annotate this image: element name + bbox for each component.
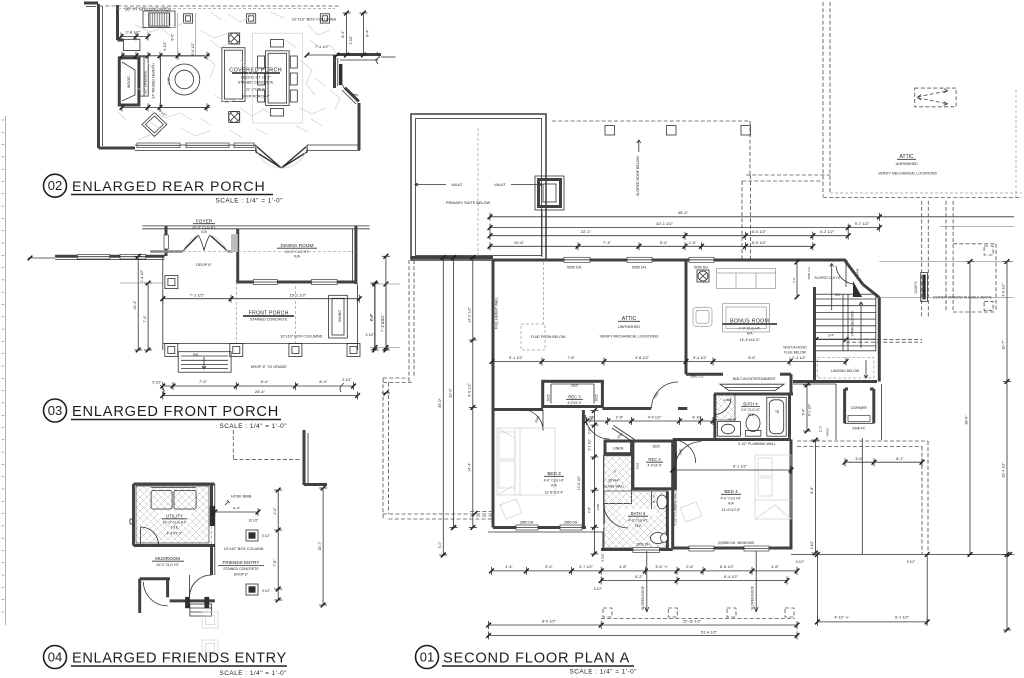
main: bottom dim row 3 bbox=[489, 624, 797, 626]
friends entry: dim horizontals bbox=[215, 511, 258, 513]
rear porch: chairs left bbox=[258, 56, 265, 68]
svg-text:5 1/2": 5 1/2" bbox=[594, 587, 602, 591]
svg-text:DN.: DN. bbox=[193, 353, 199, 357]
svg-text:5060 L.O.: 5060 L.O. bbox=[807, 266, 811, 279]
main: bonus chair bbox=[693, 307, 712, 326]
rear porch: box column top-right bbox=[320, 14, 329, 23]
svg-text:DN.: DN. bbox=[835, 293, 841, 297]
svg-text:TILE: TILE bbox=[747, 413, 754, 417]
svg-text:20'-4 1/2": 20'-4 1/2" bbox=[1002, 462, 1006, 478]
friends entry: utility left wall bbox=[132, 484, 135, 546]
svg-text:SCALE : 1/4" = 1'-0": SCALE : 1/4" = 1'-0" bbox=[220, 670, 287, 677]
rear porch: corner box column at wood storage bbox=[123, 39, 139, 50]
main: bed3 bed bbox=[497, 428, 555, 495]
main: small dim left of bay bbox=[796, 262, 798, 297]
main: bath4 fixtures bbox=[715, 394, 735, 420]
front porch: dashed roof overhang line bbox=[163, 250, 357, 252]
main: bottom right dim connectors bbox=[816, 555, 818, 622]
main: primary suite below rect bbox=[411, 114, 546, 260]
friends entry: dashed roof corner bbox=[232, 430, 234, 459]
front porch: dining bottom wall with windows bbox=[236, 281, 356, 284]
svg-text:K/A: K/A bbox=[728, 502, 734, 506]
main: attic bottom wall bbox=[493, 408, 543, 411]
svg-text:K/A: K/A bbox=[551, 484, 557, 488]
svg-text:4'-0" CLG HT.: 4'-0" CLG HT. bbox=[544, 479, 565, 483]
svg-text:ENLARGED FRONT PORCH: ENLARGED FRONT PORCH bbox=[72, 404, 279, 420]
svg-text:12'-8"x13'-4": 12'-8"x13'-4" bbox=[545, 491, 565, 495]
svg-text:8'-4": 8'-4" bbox=[366, 29, 370, 37]
rear porch: buffet bench bbox=[222, 48, 245, 102]
main: roof box columns bbox=[605, 126, 615, 136]
svg-text:DROP PORCH 4": DROP PORCH 4" bbox=[242, 95, 271, 99]
rear porch: top dashed interior line bbox=[118, 8, 335, 10]
svg-text:GLASS WALL: GLASS WALL bbox=[603, 485, 624, 489]
front porch: bottom columns bbox=[165, 344, 178, 357]
main: bath4 door bbox=[714, 398, 731, 415]
svg-text:10'-7": 10'-7" bbox=[1002, 340, 1006, 350]
main: hall left dim column bbox=[593, 411, 595, 555]
svg-text:5 1/2": 5 1/2" bbox=[349, 35, 353, 45]
friends entry: dim verticals bbox=[277, 490, 279, 600]
svg-text:4'-0": 4'-0" bbox=[273, 507, 277, 515]
svg-text:36" HT.: 36" HT. bbox=[728, 417, 737, 421]
rear porch: right wall lower bbox=[358, 103, 361, 150]
svg-text:8'-0 1/2": 8'-0 1/2" bbox=[752, 229, 767, 234]
title 03 circle bbox=[44, 399, 67, 422]
main: bed4 windows bbox=[689, 546, 714, 551]
svg-text:7'-8": 7'-8" bbox=[567, 356, 575, 360]
main: bottom dim row 1 bbox=[492, 570, 798, 572]
svg-text:4'-8 1/2": 4'-8 1/2" bbox=[635, 356, 650, 360]
main: skylight shaft bbox=[535, 176, 564, 210]
rear porch: grill cabinet surround bbox=[143, 11, 175, 28]
svg-text:5050 DH.: 5050 DH. bbox=[632, 266, 647, 270]
rear porch: top-left exterior wall stub bbox=[84, 2, 98, 5]
main: far-left small dims bbox=[374, 284, 376, 348]
friends entry: utility bottom wall bbox=[134, 544, 215, 547]
svg-text:4'-10" +/-: 4'-10" +/- bbox=[834, 616, 850, 620]
main: rec3 closet bbox=[543, 381, 603, 406]
front porch: mid dim line bbox=[163, 298, 359, 300]
rear porch: bottom window wall bbox=[135, 144, 256, 146]
front porch: house top wall bbox=[142, 225, 369, 227]
front porch: foyer left wall bbox=[165, 226, 168, 256]
svg-text:4'-0 1/2": 4'-0 1/2" bbox=[648, 416, 663, 420]
svg-text:8'-2": 8'-2" bbox=[635, 575, 643, 579]
rear porch: outer left wall bbox=[97, 4, 100, 148]
friends entry: closet door arc lower left bbox=[143, 582, 167, 606]
svg-text:SCALE : 1/4" = 1'-0": SCALE : 1/4" = 1'-0" bbox=[220, 423, 287, 430]
main: bonus door arc bbox=[652, 382, 679, 409]
svg-text:3'-5 1/2": 3'-5 1/2" bbox=[468, 382, 472, 397]
main: attic roof dashed outline top bbox=[552, 120, 750, 122]
svg-text:2625: 2625 bbox=[547, 394, 551, 401]
front porch: bottom dim row 2 bbox=[163, 395, 358, 397]
main: stair right outer wall bbox=[878, 298, 881, 382]
svg-text:CEILING HT. 10'-6": CEILING HT. 10'-6" bbox=[241, 76, 272, 80]
svg-text:1/2": 1/2" bbox=[588, 416, 594, 420]
main: bath3 toilet bbox=[651, 533, 666, 544]
svg-text:REC 3: REC 3 bbox=[568, 395, 581, 400]
rear porch: roof dashed line above grill bbox=[99, 5, 340, 7]
svg-text:5 1/2": 5 1/2" bbox=[366, 333, 376, 337]
main: bed3 room bbox=[582, 410, 585, 528]
main: top dim row 45-4 bbox=[490, 216, 1014, 218]
svg-text:B.: B. bbox=[653, 500, 656, 504]
svg-text:7'-1 1/2": 7'-1 1/2" bbox=[190, 293, 205, 298]
main: bonus left wall bbox=[685, 260, 688, 374]
main: dormer roof lines bbox=[835, 384, 837, 440]
main: rec4 closet bbox=[633, 441, 676, 489]
rear porch: flagstone pattern bbox=[135, 25, 170, 36]
main: bonus table bbox=[723, 304, 770, 332]
svg-text:9'-7 1/2": 9'-7 1/2" bbox=[855, 221, 870, 226]
svg-text:8'-0": 8'-0" bbox=[171, 33, 175, 41]
svg-text:10"x10" BOX COLUMNS: 10"x10" BOX COLUMNS bbox=[292, 17, 337, 22]
svg-text:LINEN: LINEN bbox=[613, 447, 624, 451]
svg-text:2080: 2080 bbox=[616, 432, 624, 440]
svg-text:2'-7": 2'-7" bbox=[819, 426, 823, 432]
svg-text:2850 DH.: 2850 DH. bbox=[636, 543, 650, 547]
main: bonus ceiling light bbox=[698, 271, 708, 281]
svg-text:7'-4": 7'-4" bbox=[143, 315, 147, 323]
front porch: foyer double doors bbox=[183, 235, 199, 251]
main: lower roof dashed and columns bbox=[601, 618, 795, 620]
svg-text:4'-8": 4'-8" bbox=[619, 565, 627, 569]
svg-text:9'-1 1/2": 9'-1 1/2" bbox=[808, 403, 812, 416]
rear porch: box column top-left bbox=[183, 14, 192, 23]
svg-text:4'-2 1/2": 4'-2 1/2" bbox=[820, 229, 835, 234]
svg-text:SCALE : 1/4" = 1'-0": SCALE : 1/4" = 1'-0" bbox=[216, 198, 283, 205]
svg-text:8'-4": 8'-4" bbox=[261, 379, 270, 384]
svg-text:9': 9' bbox=[614, 470, 617, 474]
svg-text:8'-0 1/2": 8'-0 1/2" bbox=[752, 240, 767, 245]
svg-text:3'-7 1/2": 3'-7 1/2" bbox=[579, 565, 594, 569]
svg-text:ROOF: ROOF bbox=[825, 428, 829, 437]
friends entry: porch column upper bbox=[246, 530, 258, 541]
svg-text:PRIMARY SUITE BELOW: PRIMARY SUITE BELOW bbox=[446, 201, 491, 205]
rear porch: right angled wall bbox=[345, 88, 359, 102]
svg-text:SLOPED ROOF BELOW: SLOPED ROOF BELOW bbox=[636, 155, 640, 196]
svg-text:3'-5" +/-: 3'-5" +/- bbox=[655, 565, 669, 569]
svg-text:UNFINISHED: UNFINISHED bbox=[896, 162, 918, 166]
main: roof valley line bbox=[861, 438, 863, 555]
front porch: left vertical dims bbox=[137, 256, 139, 350]
svg-text:8'-4": 8'-4" bbox=[341, 30, 345, 38]
friends entry: mudroom right wall bbox=[210, 546, 213, 576]
main: rec3 door arc bbox=[522, 410, 543, 431]
main: chimney flue dashed chase bbox=[741, 181, 743, 259]
svg-text:SECOND FLOOR PLAN A: SECOND FLOOR PLAN A bbox=[443, 651, 630, 667]
svg-text:K/A: K/A bbox=[294, 255, 300, 259]
svg-text:10'-0" CLG HT.: 10'-0" CLG HT. bbox=[163, 521, 187, 525]
svg-text:HOSE BIBB: HOSE BIBB bbox=[231, 495, 252, 499]
svg-text:3'-1 1/2": 3'-1 1/2" bbox=[588, 439, 592, 451]
svg-text:7'-1 1/2": 7'-1 1/2" bbox=[315, 45, 330, 49]
svg-text:2850 DH.: 2850 DH. bbox=[520, 521, 534, 525]
rear porch: dims right of porch bbox=[346, 13, 348, 55]
main: bath3 interior bbox=[603, 455, 605, 548]
main: angled door above linen bbox=[612, 428, 633, 442]
main: bed3 chair bbox=[500, 499, 522, 519]
svg-text:5050 DH.: 5050 DH. bbox=[694, 266, 709, 270]
svg-text:DROP 6": DROP 6" bbox=[234, 573, 249, 577]
svg-text:3'-4 1/2": 3'-4 1/2" bbox=[693, 356, 708, 360]
svg-text:2660 L.O.: 2660 L.O. bbox=[690, 375, 704, 379]
svg-text:51'-4 1/2": 51'-4 1/2" bbox=[701, 631, 718, 635]
svg-text:4'-4"x7'-0": 4'-4"x7'-0" bbox=[167, 532, 183, 536]
svg-text:5'-1 1/2": 5'-1 1/2" bbox=[509, 356, 524, 360]
svg-text:10"x10" BOX COLUMN: 10"x10" BOX COLUMN bbox=[224, 547, 264, 551]
svg-text:3'-0": 3'-0" bbox=[792, 277, 796, 283]
svg-text:2'-0": 2'-0" bbox=[689, 240, 698, 245]
svg-text:DROP 6": DROP 6" bbox=[196, 263, 212, 267]
svg-text:45'-4": 45'-4" bbox=[678, 210, 689, 215]
svg-text:2850 DH.: 2850 DH. bbox=[564, 521, 578, 525]
main: top wall with windows bbox=[493, 259, 846, 262]
svg-text:14'-4": 14'-4" bbox=[468, 462, 472, 472]
svg-text:4'-0"x3'-0": 4'-0"x3'-0" bbox=[567, 401, 581, 405]
rear porch: light fixture upper bbox=[229, 33, 240, 44]
svg-text:VAULT: VAULT bbox=[494, 183, 506, 187]
main: extension line right of bay corner bbox=[876, 297, 1014, 299]
main: dormer bbox=[843, 389, 846, 423]
main: linen closet bbox=[605, 441, 632, 454]
svg-text:9'-4": 9'-4" bbox=[802, 408, 806, 416]
svg-text:9'-6 1/2": 9'-6 1/2" bbox=[191, 42, 195, 56]
svg-text:2480: 2480 bbox=[596, 503, 600, 510]
front porch: dining left wall and pocket door bbox=[236, 229, 239, 283]
main: bath3 labels bbox=[620, 509, 656, 515]
rear porch: east opening walls bbox=[337, 53, 381, 56]
svg-text:13'-4"x12'-8": 13'-4"x12'-8" bbox=[722, 508, 742, 512]
svg-text:4'-10": 4'-10" bbox=[692, 416, 702, 420]
svg-text:03: 03 bbox=[48, 403, 62, 418]
front porch: right vertical dims bbox=[374, 283, 376, 350]
svg-text:UTILITY: UTILITY bbox=[166, 514, 183, 519]
svg-text:2448: 2448 bbox=[856, 268, 860, 275]
main: mid dim row bbox=[492, 361, 846, 363]
main: primary rect bottom wall to plan bbox=[411, 256, 493, 259]
rear porch: wood storage niche bbox=[119, 58, 139, 105]
rear porch: door leaf east bbox=[339, 64, 342, 85]
main: lower-left roof edge bbox=[488, 531, 603, 533]
friends entry: utility labels bbox=[158, 511, 191, 518]
rear porch: chair bottom bbox=[271, 109, 284, 117]
main: right margin extension lines bbox=[879, 261, 1014, 263]
svg-text:SLOPED ROOF: SLOPED ROOF bbox=[751, 586, 755, 610]
svg-text:3'-6": 3'-6" bbox=[855, 457, 863, 461]
svg-text:VERIFY MECHANICAL LOCATIONS: VERIFY MECHANICAL LOCATIONS bbox=[600, 335, 659, 339]
friends entry: steps below bbox=[190, 604, 212, 616]
svg-text:2880: 2880 bbox=[653, 391, 660, 399]
svg-text:21'-2"x25'-2": 21'-2"x25'-2" bbox=[246, 88, 266, 92]
main: bath3 door arc bbox=[604, 503, 629, 528]
rear porch: box column top-mid bbox=[247, 14, 256, 23]
svg-text:1'-4 1/2": 1'-4 1/2" bbox=[140, 269, 144, 282]
rear porch: diamond end table bbox=[142, 113, 167, 137]
svg-text:ENLARGED FRIENDS ENTRY: ENLARGED FRIENDS ENTRY bbox=[72, 651, 287, 667]
svg-text:01: 01 bbox=[420, 649, 434, 664]
svg-text:BATH 4: BATH 4 bbox=[743, 401, 758, 406]
svg-text:3'-4": 3'-4" bbox=[828, 334, 834, 338]
svg-text:4'-6": 4'-6" bbox=[771, 565, 779, 569]
front porch: porch right edge bbox=[357, 284, 359, 350]
rear porch: dim line below platform bbox=[122, 106, 210, 108]
rear porch: grill hatched bbox=[149, 13, 170, 26]
svg-text:BED 3: BED 3 bbox=[547, 471, 561, 476]
svg-text:14'-4"x14'-0": 14'-4"x14'-0" bbox=[740, 338, 761, 342]
svg-text:5 1/2": 5 1/2" bbox=[152, 381, 162, 385]
main: dormer roof symbol top-right bbox=[915, 88, 956, 107]
svg-text:2625: 2625 bbox=[635, 462, 639, 469]
svg-text:5 1/2": 5 1/2" bbox=[796, 560, 804, 564]
main: left vertical dims bbox=[442, 258, 444, 556]
svg-text:2625: 2625 bbox=[594, 394, 598, 401]
svg-text:4'-4": 4'-4" bbox=[233, 507, 241, 511]
svg-text:38'-0": 38'-0" bbox=[965, 415, 969, 425]
svg-text:BATH 3: BATH 3 bbox=[631, 511, 646, 516]
svg-text:15'-1 1/2": 15'-1 1/2" bbox=[289, 293, 306, 298]
title 04 circle bbox=[44, 646, 67, 669]
friends entry: porch column lower bbox=[246, 584, 258, 595]
main: left bottom vertical dim ticks bbox=[441, 553, 446, 558]
svg-text:5'-1 1/2": 5'-1 1/2" bbox=[895, 616, 910, 620]
svg-text:4'-4": 4'-4" bbox=[505, 565, 513, 569]
svg-text:42'-1 1/2": 42'-1 1/2" bbox=[656, 221, 673, 226]
front porch: porch left edge bbox=[162, 256, 164, 350]
svg-text:10'-6 1/2": 10'-6 1/2" bbox=[577, 475, 581, 490]
main: bed4 door arc bbox=[673, 440, 696, 463]
svg-text:32'-0": 32'-0" bbox=[448, 388, 452, 398]
main: bonus stair door arc bbox=[836, 266, 853, 284]
svg-text:SLOPED ROOF: SLOPED ROOF bbox=[641, 586, 645, 610]
svg-text:6'-8 1/2": 6'-8 1/2" bbox=[720, 565, 735, 569]
svg-text:5 1/2": 5 1/2" bbox=[907, 560, 915, 564]
front porch: column top-left bbox=[165, 276, 178, 289]
rear porch: double out-swing doors bbox=[256, 146, 281, 168]
main: bed3 windows bbox=[516, 525, 538, 530]
rear porch: hearth strip bbox=[140, 57, 148, 96]
rear porch: chair top bbox=[271, 40, 284, 48]
svg-text:2680: 2680 bbox=[679, 448, 683, 455]
rear porch: firepit platform bbox=[160, 56, 206, 108]
svg-text:VAULT: VAULT bbox=[451, 183, 463, 187]
svg-text:2'-4 1/2": 2'-4 1/2" bbox=[792, 356, 807, 360]
front porch: steps bbox=[178, 352, 231, 373]
friends entry: house corner wall bbox=[303, 430, 306, 485]
svg-text:5050 DH.: 5050 DH. bbox=[567, 266, 582, 270]
main: stair left wall bbox=[813, 287, 816, 382]
svg-text:02: 02 bbox=[48, 178, 62, 193]
rear porch: dining table bbox=[266, 51, 290, 106]
svg-text:10'-0" CLG HT.: 10'-0" CLG HT. bbox=[285, 250, 309, 254]
svg-text:5 1/2": 5 1/2" bbox=[342, 378, 352, 382]
main: top dim row 4 bbox=[490, 245, 813, 247]
svg-text:FULL HEIGHT WALL: FULL HEIGHT WALL bbox=[495, 297, 499, 329]
front porch: porch bottom edge line bbox=[163, 343, 358, 345]
main: bed4 chair bbox=[680, 502, 702, 522]
svg-text:5 1/2": 5 1/2" bbox=[262, 534, 270, 538]
friends entry: utility door bbox=[140, 527, 142, 546]
svg-text:2480: 2480 bbox=[674, 451, 678, 458]
rear porch: light fixture lower bbox=[229, 111, 240, 122]
svg-text:5 1/2": 5 1/2" bbox=[163, 41, 167, 51]
main: hall door arcs bbox=[586, 415, 610, 439]
sheet margin ruler line bbox=[5, 116, 7, 625]
front porch: foyer door sill walls bbox=[150, 250, 183, 252]
main: left dashed stub lines bbox=[470, 511, 492, 513]
svg-text:4'-0": 4'-0" bbox=[167, 77, 171, 85]
svg-text:STAINED CONCRETE: STAINED CONCRETE bbox=[238, 81, 274, 85]
main: built-in entertainment bbox=[686, 373, 723, 376]
main: bath4 walls bbox=[713, 394, 716, 438]
svg-text:10'-0" CLG HT.: 10'-0" CLG HT. bbox=[156, 563, 180, 567]
svg-text:5'-4": 5'-4" bbox=[545, 565, 553, 569]
svg-text:16 1/2": 16 1/2" bbox=[248, 519, 258, 523]
svg-text:5 1/2": 5 1/2" bbox=[262, 589, 270, 593]
svg-text:8'-4 1/2": 8'-4 1/2" bbox=[724, 575, 739, 579]
main: top dim row 22-1 bbox=[490, 235, 848, 237]
svg-text:LANDING BELOW: LANDING BELOW bbox=[831, 369, 860, 373]
main: bottom dim row 4 bbox=[489, 635, 797, 637]
svg-text:N: N bbox=[653, 495, 655, 499]
svg-text:2448 FX.: 2448 FX. bbox=[852, 427, 866, 431]
rear porch: wall jog above wood niche bbox=[118, 39, 124, 42]
svg-text:10'-2": 10'-2" bbox=[133, 300, 137, 310]
main: upper hall dim row bbox=[587, 420, 714, 422]
friends entry: washer dryer bbox=[151, 490, 172, 509]
front porch: bottom dim row 1 bbox=[163, 385, 354, 387]
svg-text:8'-1": 8'-1" bbox=[896, 457, 904, 461]
svg-text:TILE: TILE bbox=[635, 524, 642, 528]
friends entry: skylight squares below bbox=[202, 612, 218, 628]
front porch: swing bbox=[329, 295, 348, 338]
svg-text:4'-6 1/2": 4'-6 1/2" bbox=[1002, 283, 1006, 297]
main: bottom dim row 2 bbox=[601, 580, 787, 582]
svg-text:5 1/2" PLUMBING WALL: 5 1/2" PLUMBING WALL bbox=[738, 442, 776, 446]
title 01 circle bbox=[416, 646, 439, 669]
main: shower bbox=[604, 456, 632, 504]
svg-text:10"x10" BOX COLUMNS: 10"x10" BOX COLUMNS bbox=[280, 335, 323, 339]
svg-text:4'-0" CLG HT.: 4'-0" CLG HT. bbox=[721, 497, 742, 501]
title 02 circle bbox=[44, 174, 67, 197]
rear porch: bottom wall left segment bbox=[99, 147, 136, 150]
main: left wall bbox=[492, 260, 495, 528]
front porch: left exterior wall run bbox=[55, 255, 164, 258]
main: sloped roof labels bottom bbox=[646, 551, 648, 612]
svg-text:2'-8 1/2": 2'-8 1/2" bbox=[126, 30, 141, 35]
rear porch: dim line above platform bbox=[122, 55, 210, 57]
friends entry: friends entry label bbox=[216, 558, 266, 565]
svg-text:MUDROOM: MUDROOM bbox=[155, 556, 180, 561]
svg-text:5 1/2": 5 1/2" bbox=[810, 541, 814, 549]
svg-text:SWING: SWING bbox=[338, 310, 342, 322]
svg-text:REC 4: REC 4 bbox=[648, 457, 661, 462]
svg-text:25'-4": 25'-4" bbox=[255, 389, 266, 394]
svg-text:K/A: K/A bbox=[201, 230, 207, 234]
svg-text:5 1/2": 5 1/2" bbox=[601, 553, 605, 561]
svg-text:2'-0": 2'-0" bbox=[588, 428, 592, 434]
svg-text:4'-0"x3'-0": 4'-0"x3'-0" bbox=[647, 464, 661, 468]
svg-text:4'-0" CLG HT.: 4'-0" CLG HT. bbox=[741, 408, 761, 412]
svg-text:DROP 6" TO GRADE: DROP 6" TO GRADE bbox=[251, 365, 288, 369]
friends entry: utility right wall bbox=[210, 484, 213, 526]
rear porch: firepit circle bbox=[169, 64, 200, 95]
rear porch: outdoor rug bbox=[253, 33, 303, 123]
svg-text:2625: 2625 bbox=[652, 445, 659, 449]
svg-text:SCALE : 1/4" = 1'-0": SCALE : 1/4" = 1'-0" bbox=[570, 669, 637, 676]
